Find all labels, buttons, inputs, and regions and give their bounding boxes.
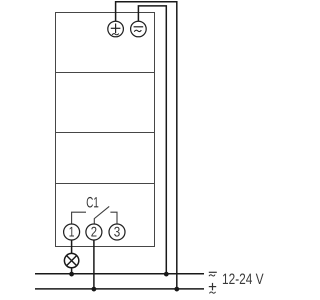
label +/~ at + rail (209, 283, 216, 294)
wire lamp to - rail (71, 268, 73, 274)
terminal 2 (86, 224, 102, 240)
terminal +/~ (108, 21, 124, 37)
switch blade C1 (94, 206, 109, 224)
module divider 3 (56, 183, 155, 185)
label C1 (87, 197, 99, 208)
wire terminal 3 fixed contact (110, 212, 117, 224)
- rail (35, 273, 204, 275)
terminal 1 (64, 224, 80, 240)
junction terminal 2 / + rail (92, 287, 97, 292)
label -/~ at - rail (209, 272, 217, 276)
+ rail (35, 288, 204, 290)
terminal 3 (109, 224, 125, 240)
junction lamp / - rail (69, 272, 74, 277)
wire terminal 2 to + rail (93, 240, 95, 289)
junction - supply / - rail (164, 272, 169, 277)
terminal -/~ (131, 21, 147, 37)
wire -/~ supply to - rail (138, 6, 166, 274)
module divider 1 (56, 72, 155, 74)
wire terminal 1 to lamp (71, 240, 73, 254)
module divider 2 (56, 132, 155, 134)
module outline (56, 13, 155, 247)
lamp (64, 253, 78, 267)
wire +/~ supply to + rail (116, 2, 177, 289)
label 12-24 V (223, 274, 264, 284)
junction + supply / + rail (174, 287, 179, 292)
wire terminal 1 fixed contact (72, 212, 86, 224)
